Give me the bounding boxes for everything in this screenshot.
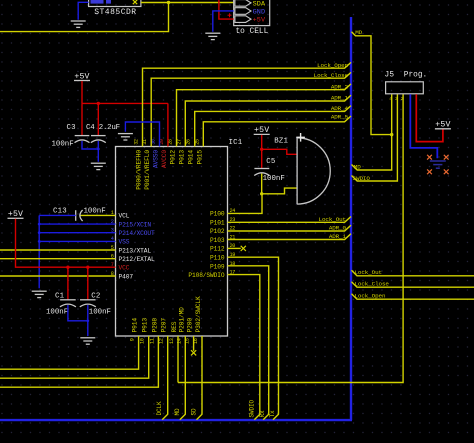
svg-text:P213/XTAL: P213/XTAL: [119, 247, 152, 254]
svg-text:P112: P112: [210, 246, 225, 253]
svg-text:13: 13: [169, 338, 175, 344]
svg-text:P103: P103: [210, 237, 225, 244]
svg-text:SWDIO: SWDIO: [248, 399, 255, 417]
svg-text:P102: P102: [210, 228, 225, 235]
svg-text:P001/VREFL0: P001/VREFL0: [144, 150, 151, 190]
svg-text:AVCC0: AVCC0: [161, 150, 168, 168]
svg-text:Lock_Out: Lock_Out: [355, 269, 382, 276]
svg-text:SWDIO: SWDIO: [353, 175, 371, 182]
svg-text:P214/XCOUT: P214/XCOUT: [119, 230, 156, 237]
svg-text:C5: C5: [266, 158, 275, 166]
svg-text:100nF: 100nF: [89, 308, 111, 316]
svg-text:3: 3: [395, 96, 398, 102]
svg-text:Lock_Close: Lock_Close: [314, 72, 349, 79]
svg-text:P014: P014: [188, 150, 195, 165]
svg-text:ST485CDR: ST485CDR: [94, 8, 136, 17]
svg-text:P913: P913: [142, 318, 149, 333]
svg-text:Prog.: Prog.: [404, 72, 427, 80]
svg-text:GND: GND: [253, 9, 266, 17]
svg-text:Rx: Rx: [259, 410, 266, 418]
svg-text:RES: RES: [171, 321, 178, 332]
svg-text:Tx: Tx: [269, 410, 276, 418]
svg-text:VCL: VCL: [119, 213, 130, 220]
svg-text:SD: SD: [191, 408, 198, 416]
svg-text:9: 9: [130, 338, 136, 341]
svg-text:C3: C3: [67, 124, 76, 132]
svg-text:4: 4: [389, 96, 392, 102]
svg-text:P110: P110: [210, 255, 225, 262]
svg-text:2: 2: [401, 96, 404, 102]
svg-text:P013: P013: [178, 150, 185, 165]
svg-text:ADR_4: ADR_4: [331, 105, 349, 112]
svg-text:ADR_0: ADR_0: [329, 225, 347, 232]
svg-text:P200: P200: [187, 318, 194, 333]
svg-text:BZ1: BZ1: [274, 137, 288, 145]
svg-text:J5: J5: [385, 72, 395, 80]
svg-text:100nF: 100nF: [46, 308, 68, 316]
svg-text:VCC: VCC: [119, 265, 130, 272]
svg-text:100nF: 100nF: [84, 207, 106, 215]
svg-text:MD: MD: [174, 408, 181, 416]
svg-text:+5V: +5V: [253, 17, 266, 25]
svg-text:SDA: SDA: [253, 0, 266, 8]
svg-text:P100: P100: [210, 211, 225, 218]
svg-text:Lock_Open: Lock_Open: [317, 62, 348, 69]
svg-text:P212/EXTAL: P212/EXTAL: [119, 256, 156, 263]
svg-text:P208: P208: [151, 318, 158, 333]
svg-text:ADR_1: ADR_1: [331, 95, 349, 102]
svg-text:12: 12: [159, 338, 165, 344]
svg-text:100nF: 100nF: [263, 175, 285, 183]
svg-text:Lock_Out: Lock_Out: [319, 216, 346, 223]
svg-text:32: 32: [134, 139, 140, 145]
svg-text:P012: P012: [170, 150, 177, 165]
svg-text:P914: P914: [132, 318, 139, 333]
svg-text:P000/VREFH0: P000/VREFH0: [136, 150, 143, 190]
svg-text:ADR_2: ADR_2: [331, 83, 349, 90]
svg-text:P015: P015: [196, 150, 203, 165]
svg-text:C1: C1: [55, 293, 65, 301]
svg-text:AVSS0: AVSS0: [153, 150, 160, 168]
svg-text:MD: MD: [355, 29, 362, 36]
svg-text:P407: P407: [119, 273, 134, 280]
svg-text:11: 11: [149, 338, 155, 344]
svg-text:MD: MD: [354, 164, 361, 171]
svg-text:Lock_Open: Lock_Open: [355, 293, 386, 300]
svg-text:ADR_5: ADR_5: [331, 114, 349, 121]
svg-text:VSS: VSS: [119, 239, 130, 246]
svg-text:DCLK: DCLK: [156, 401, 163, 416]
svg-text:14: 14: [176, 338, 182, 344]
svg-text:Lock_Close: Lock_Close: [355, 281, 390, 288]
svg-text:P109: P109: [210, 263, 225, 270]
svg-text:P201/MD: P201/MD: [178, 307, 185, 333]
svg-text:P215/XCIN: P215/XCIN: [119, 221, 152, 228]
svg-text:IC1: IC1: [229, 139, 243, 147]
svg-text:26: 26: [186, 139, 192, 145]
svg-text:100nF: 100nF: [52, 141, 74, 149]
svg-text:P207: P207: [161, 318, 168, 333]
svg-text:C4 2.2uF: C4 2.2uF: [86, 124, 120, 132]
svg-text:P101: P101: [210, 219, 225, 226]
svg-text:ADR_1: ADR_1: [329, 233, 347, 240]
svg-text:P302/SWCLK: P302/SWCLK: [195, 296, 202, 333]
svg-text:C13: C13: [53, 207, 67, 215]
svg-text:10: 10: [140, 338, 146, 344]
svg-text:to CELL: to CELL: [236, 28, 269, 36]
svg-text:P108/SWDIO: P108/SWDIO: [188, 272, 225, 279]
svg-text:C2: C2: [91, 293, 100, 301]
